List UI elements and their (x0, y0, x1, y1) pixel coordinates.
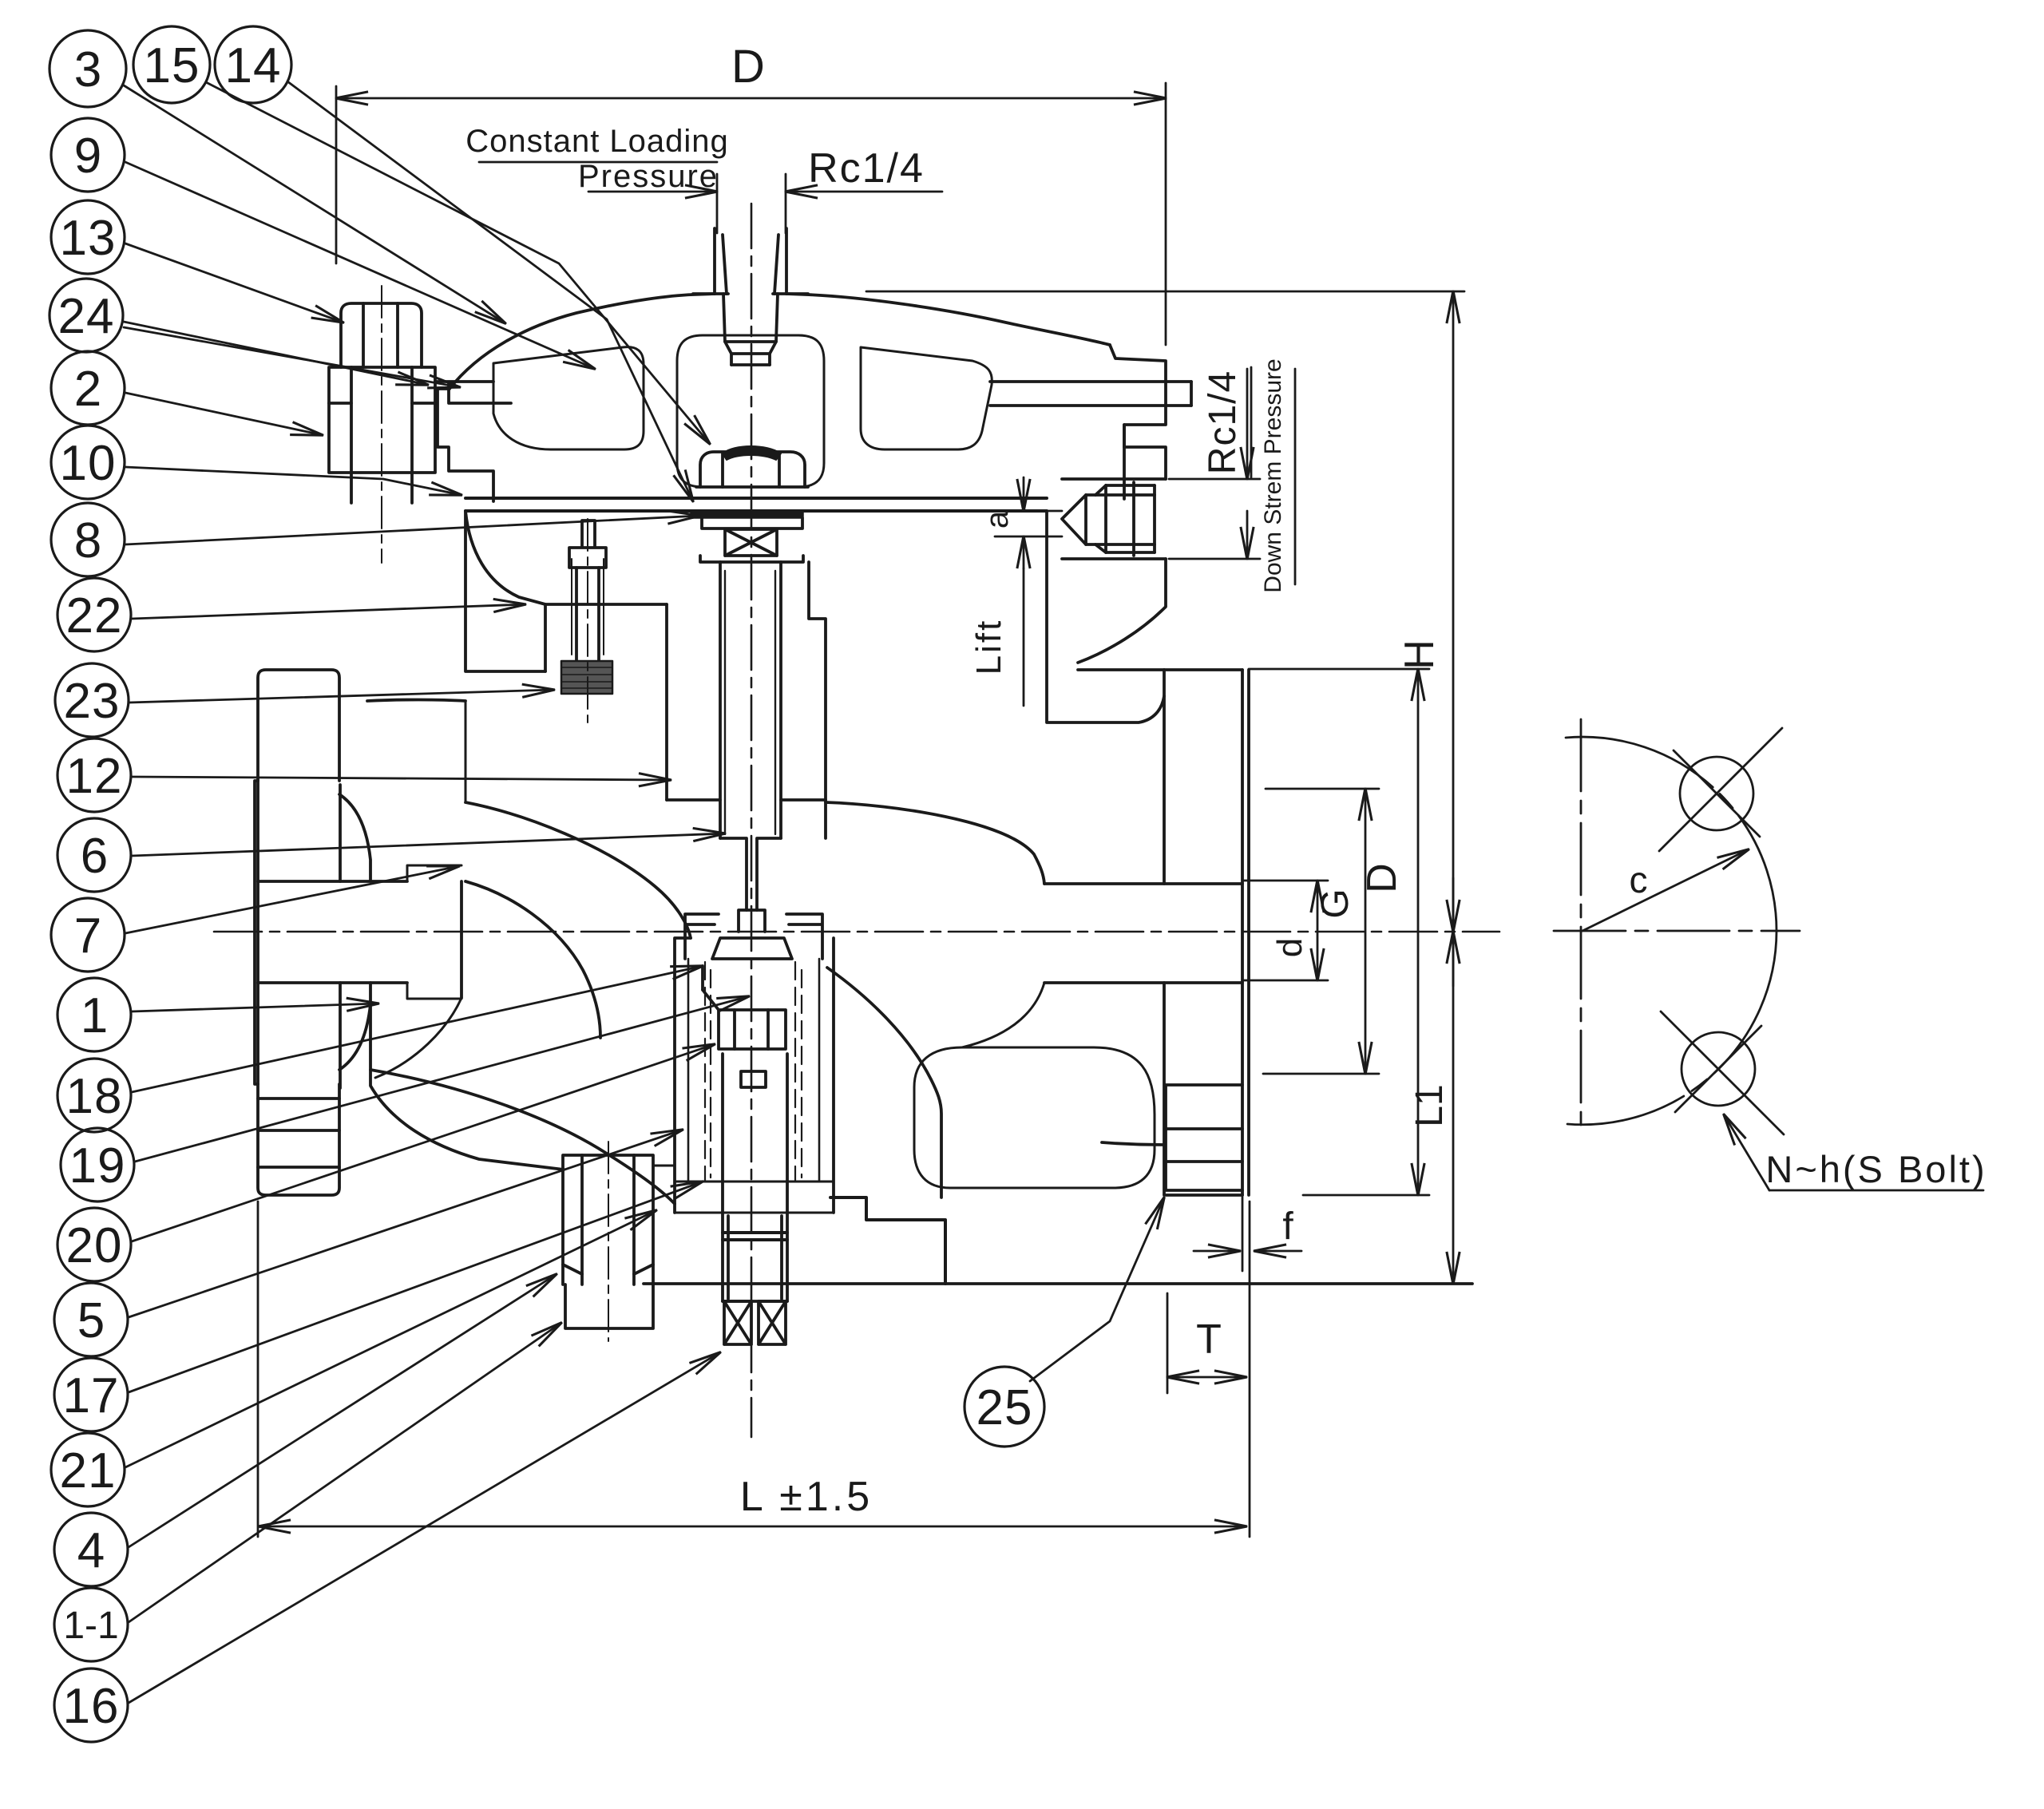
leader balloon 6 -> stem (132, 833, 725, 856)
step plate below (700, 556, 803, 562)
plug assembly center (712, 938, 792, 959)
knurled nut (dark) (561, 661, 612, 694)
leader balloon 19 -> plug nut (135, 996, 749, 1162)
balloon 12 (57, 738, 131, 812)
svg-text:25: 25 (976, 1380, 1033, 1435)
svg-text:2: 2 (74, 362, 101, 417)
bolt hole bottom with cross marks (1682, 1032, 1755, 1106)
seat ring (685, 914, 822, 959)
dimension G / d (1317, 881, 1319, 980)
balloon 20 (57, 1208, 131, 1281)
LEFT FLANGE upper block (258, 670, 339, 781)
svg-text:4: 4 (77, 1523, 105, 1578)
svg-text:17: 17 (63, 1368, 120, 1423)
leader balloon 5 -> cage (129, 1130, 683, 1317)
bolt hole top with cross marks (1680, 757, 1753, 830)
balloon 19 (61, 1128, 134, 1201)
svg-text:22: 22 (66, 588, 123, 643)
balloon 4 (54, 1513, 128, 1586)
balloon 13 (51, 200, 125, 274)
balloon 14 (215, 26, 291, 103)
leader balloon 24 -> bonnet flange (b) (124, 327, 460, 387)
dimension Rc1/4 top port (588, 191, 717, 193)
balloon 17 (54, 1358, 128, 1431)
svg-text:H: H (1396, 639, 1443, 670)
balloon 2 (51, 351, 125, 425)
bolt circle diagram (1554, 719, 1800, 1190)
balloon 10 (51, 426, 125, 499)
leader balloon 25 -> bottom gasket (1030, 1197, 1164, 1381)
RIGHT FLANGE (1242, 670, 1249, 1195)
svg-text:L1: L1 (1408, 1084, 1451, 1126)
leader balloon 16 -> bottom cap (129, 1352, 720, 1703)
upper body right wall near bonnet (544, 604, 547, 671)
diaphragm washer dark band (691, 512, 803, 518)
right downstream port + hex plug (1062, 479, 1166, 559)
leader balloon 2 -> lock nut (125, 393, 323, 435)
leader balloon 3 -> bonnet (124, 85, 505, 323)
bolt circle vertical centerline (1580, 719, 1583, 1134)
leader balloon 24 -> bonnet flange (a) (124, 322, 428, 385)
leader balloon 12 -> stem guide (132, 777, 671, 780)
svg-text:7: 7 (74, 908, 101, 964)
leader balloon 14 -> diaphragm washer (287, 81, 693, 501)
dimension Lift / a (1023, 477, 1025, 511)
balloon 8 (51, 503, 125, 576)
dimension D (top overall width) (335, 86, 338, 263)
svg-text:13: 13 (60, 211, 117, 266)
svg-text:12: 12 (66, 749, 123, 804)
balloon 3 (50, 30, 126, 107)
svg-text:5: 5 (77, 1293, 105, 1348)
svg-text:f: f (1282, 1205, 1293, 1248)
leader balloon 13 -> adjusting bolt (125, 243, 343, 323)
diaphragm (465, 497, 1047, 500)
dimension f (raised face) (1194, 1250, 1240, 1253)
leader balloon 9 -> spring (125, 162, 595, 369)
stem hex nut (700, 452, 805, 487)
leader balloon 8 -> diaphragm plate (125, 516, 699, 544)
drain plug bottom-left (563, 1155, 653, 1285)
svg-text:a: a (980, 510, 1015, 528)
balloon 1-1 (54, 1588, 128, 1661)
bottom spring case (723, 1213, 787, 1301)
svg-text:Rc1/4: Rc1/4 (1202, 370, 1244, 474)
bonnet skirt left wall (465, 511, 545, 671)
flange back verticals (339, 785, 342, 1088)
dimension L1 (1417, 669, 1420, 1195)
balloon 15 (133, 26, 210, 103)
bonnet-body joint surfaces (667, 798, 826, 802)
svg-text:16: 16 (63, 1679, 120, 1734)
svg-text:G: G (1314, 889, 1357, 918)
balloon 6 (57, 818, 131, 892)
spring housing lower walls (465, 511, 667, 604)
svg-text:Lift: Lift (969, 619, 1008, 675)
body bottom (644, 1282, 1472, 1285)
spring button dark band (723, 446, 781, 460)
bolt circle arc (1566, 737, 1777, 931)
vent screw left (part 22/23) (569, 521, 606, 568)
balloon 9 (51, 118, 125, 192)
balloon 16 (54, 1668, 128, 1742)
svg-text:D: D (731, 41, 765, 93)
dimension D (flange OD) (1365, 789, 1367, 1074)
left flange hub fillets (339, 794, 370, 881)
X-box bearing upper (725, 529, 777, 556)
dimension Rc1/4 downstream port (1246, 369, 1249, 479)
balloon 21 (51, 1433, 125, 1506)
balloon 5 (54, 1283, 128, 1356)
svg-text:Rc1/4: Rc1/4 (808, 145, 925, 192)
svg-text:23: 23 (64, 674, 121, 729)
underlines for labels (479, 162, 1983, 1190)
leader balloon 23 -> knurled nut (129, 690, 554, 703)
svg-text:19: 19 (69, 1138, 126, 1193)
balloon 7 (51, 898, 125, 972)
svg-text:1-1: 1-1 (63, 1605, 118, 1647)
body mid passages (S-curves) (465, 802, 691, 938)
lower chamber blob (914, 1047, 1155, 1188)
body to right flange (1102, 670, 1164, 1195)
leader balloon 17 -> cage lower (129, 1182, 703, 1392)
body lower-left outline (370, 1004, 564, 1170)
svg-text:L ±1.5: L ±1.5 (740, 1474, 873, 1520)
adjusting bolt centerline (381, 286, 382, 563)
lower bulb wall (827, 968, 941, 1197)
leader N~h(S Bolt) (1724, 1114, 1769, 1190)
svg-text:21: 21 (60, 1443, 117, 1498)
balloon 1 (57, 978, 131, 1051)
svg-text:Down Strem Pressure: Down Strem Pressure (1260, 358, 1286, 592)
leader balloon 18 -> plug head (132, 966, 703, 1092)
svg-text:Constant Loading: Constant Loading (465, 124, 729, 159)
leader balloon 7 -> seat (125, 866, 459, 933)
dimension H (total height) (866, 291, 1464, 293)
washer below diaphragm (702, 518, 802, 528)
leader balloon 20 -> plug guide (132, 1044, 715, 1241)
leader balloon 15 -> stem nut (206, 82, 710, 444)
top port Rc1/4 stub (693, 228, 808, 365)
bottom X boxes (724, 1301, 751, 1344)
stem lower section (720, 838, 781, 910)
bolt circle horizontal centerline (1554, 930, 1800, 932)
leader balloon 10 -> diaphragm edge (125, 467, 461, 495)
svg-text:6: 6 (81, 829, 108, 884)
bolt body and lock plate (329, 367, 435, 473)
svg-text:Pressure: Pressure (578, 159, 719, 194)
dimension T (flange thickness) (1167, 1293, 1169, 1393)
leader balloon 4 -> drain plug (129, 1274, 557, 1547)
svg-text:9: 9 (74, 129, 101, 184)
leader balloon 1 -> body (132, 1003, 378, 1011)
svg-text:14: 14 (225, 38, 282, 93)
balloon 25 (965, 1367, 1044, 1447)
svg-text:c: c (1630, 859, 1648, 901)
left flange lower block (258, 1084, 339, 1195)
inlet bore lines (258, 881, 407, 983)
svg-text:1: 1 (81, 988, 108, 1043)
left flange face (255, 781, 258, 1084)
cage outline (675, 1182, 834, 1213)
bonnet center pocket (677, 335, 824, 487)
svg-text:N~h(S Bolt): N~h(S Bolt) (1765, 1148, 1987, 1190)
leader balloon 22 -> bracket (132, 604, 525, 619)
svg-text:8: 8 (74, 513, 101, 568)
adjusting bolt top-left : hex head (341, 303, 422, 367)
vertical valve axis centerline (751, 204, 753, 1437)
leader balloon 1-1 -> drain plug head (129, 1323, 561, 1622)
svg-text:15: 15 (144, 38, 200, 93)
dimension L +-1.5 (face to face) (257, 1201, 259, 1537)
balloon 24 (50, 279, 123, 352)
right bonnet vent boss lines (990, 380, 1191, 383)
svg-text:18: 18 (66, 1069, 123, 1124)
balloon 22 (57, 578, 131, 651)
plug skirt verticals (723, 1054, 787, 1213)
bonnet inner chamber right (861, 347, 992, 449)
balloon 18 (57, 1059, 131, 1132)
svg-text:3: 3 (74, 42, 101, 97)
svg-text:20: 20 (66, 1218, 123, 1273)
lower web from bore corner (962, 983, 1044, 1047)
svg-text:D: D (1359, 863, 1405, 893)
bonnet dome outline (450, 294, 1110, 389)
bonnet inner chamber left (493, 347, 644, 449)
central stem tube (720, 562, 781, 838)
bonnet flange left steps (435, 382, 511, 403)
horizontal main centerline (214, 931, 1499, 933)
balloon 23 (55, 663, 129, 737)
svg-text:10: 10 (60, 436, 117, 491)
body upper-left outline (460, 881, 463, 998)
svg-text:24: 24 (58, 289, 115, 344)
radius arrow c (1583, 849, 1749, 931)
svg-text:T: T (1196, 1316, 1222, 1363)
leader balloon 21 -> case flange (125, 1210, 656, 1467)
svg-text:d: d (1270, 938, 1309, 957)
